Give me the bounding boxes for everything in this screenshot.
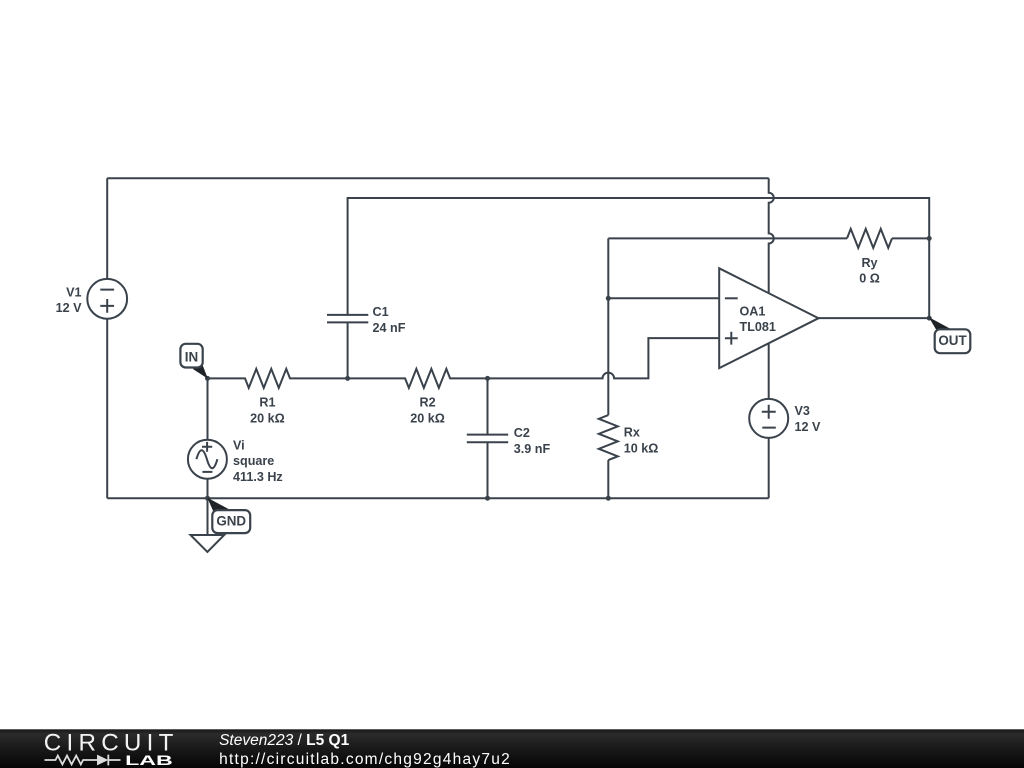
node junction dot Ry right [927,236,932,241]
wire C2 top lead [487,378,489,434]
svg-text:12 V: 12 V [795,420,822,434]
wire V3 bottom lead to bottom rail [768,438,770,498]
svg-text:V3: V3 [795,404,810,418]
flag pointer GND [207,498,231,513]
capacitor C1 [327,315,368,323]
node junction dot GND [205,496,210,501]
svg-text:C1: C1 [373,305,389,319]
svg-text:Steven223 / L5 Q1: Steven223 / L5 Q1 [219,732,349,749]
wire output column from Ry node down to OUT node [928,238,930,318]
svg-text:12 V: 12 V [56,301,83,315]
node junction dot Rx bottom [606,496,611,501]
svg-text:411.3 Hz: 411.3 Hz [233,470,283,484]
resistor R1 [208,369,348,388]
svg-text:Ry: Ry [861,256,877,270]
wire op-amp V+ supply column with two hops [769,178,774,293]
wire bottom rail (ground net) [107,497,769,499]
svg-text:20 kΩ: 20 kΩ [410,411,445,425]
wire Ry right lead to output column [892,237,929,239]
ground symbol [191,535,225,552]
svg-text:TL081: TL081 [740,320,776,334]
voltage source Vi (square wave) [188,440,227,479]
svg-text:square: square [233,454,274,468]
wire C1 bottom lead [347,322,349,378]
svg-text:GND: GND [216,514,246,529]
wire Rx bottom lead [607,460,609,498]
svg-text:V1: V1 [66,285,81,299]
node junction dot minus input [606,296,611,301]
logo resistor-diode glyph [45,755,121,766]
svg-text:Rx: Rx [624,426,640,440]
svg-text:LAB: LAB [125,753,173,768]
wire C2 bottom lead [487,442,489,498]
wire C1 top column and feedback run to Ry right node [348,198,930,315]
op-amp OA1 [719,268,818,368]
wire V1 bottom lead [106,319,108,499]
svg-text:OUT: OUT [938,333,967,348]
svg-text:20 kΩ: 20 kΩ [250,411,285,425]
wire V1 top lead [106,178,108,279]
wire from C2 node to op-amp + input with hop over vertical net [488,338,720,378]
svg-text:http://circuitlab.com/chg92g4h: http://circuitlab.com/chg92g4hay7u2 [219,751,510,768]
svg-text:Vi: Vi [233,438,245,452]
node junction dot IN node [205,376,210,381]
svg-text:R2: R2 [420,396,436,410]
wire Ry left run from vertical net corner [608,237,847,239]
voltage source V3 [749,399,788,438]
resistor Ry [847,229,892,248]
footer bar [0,729,1024,768]
node junction dot OUT [927,316,932,321]
wire from minus node to op-amp - input [608,297,719,299]
svg-text:C2: C2 [514,426,530,440]
voltage source V1 [87,279,127,319]
wire vertical net: Ry-left corner down through minus node to Rx top [607,238,609,415]
svg-text:3.9 nF: 3.9 nF [514,442,551,456]
flag pointer OUT [929,317,952,331]
wire Vi bottom lead [207,479,209,499]
node flag IN [180,344,202,368]
node flag OUT [935,329,971,353]
svg-text:R1: R1 [259,396,275,410]
node junction dot R1/R2/C1 [345,376,350,381]
capacitor C2 [467,435,508,443]
node junction dot R2/C2 [485,376,490,381]
wire Vi top lead to IN node [207,378,209,439]
svg-text:0 Ω: 0 Ω [859,272,880,286]
svg-text:24 nF: 24 nF [373,321,406,335]
wire GND stem [207,498,209,535]
svg-text:OA1: OA1 [740,305,766,319]
resistor R2 [348,369,488,388]
node junction dot C2 bottom [485,496,490,501]
wire op-amp output to OUT node [819,317,930,319]
resistor Rx [599,415,618,460]
svg-text:10 kΩ: 10 kΩ [624,441,659,455]
CircuitLab logo wordmark [44,730,174,768]
svg-text:IN: IN [185,350,198,365]
wire top rail from V1 top to op-amp supply column [107,177,769,179]
wire op-amp V- pin to V3 top [768,343,770,399]
flag pointer IN [193,362,208,379]
node flag GND [212,510,250,533]
